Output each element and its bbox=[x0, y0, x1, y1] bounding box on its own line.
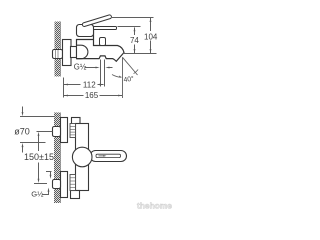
lever slot arrow bbox=[99, 155, 107, 157]
ext line escutcheon bottom bbox=[20, 142, 46, 144]
ext line top bar bbox=[118, 26, 141, 28]
top bar bbox=[94, 27, 117, 30]
bottom union nut bbox=[70, 175, 76, 191]
body (side view) bbox=[77, 29, 125, 62]
wall inlet fitting (side view) bbox=[53, 50, 63, 59]
ext line escutcheon top bbox=[20, 116, 55, 118]
lever (plan view) bbox=[90, 151, 127, 162]
40 deg arc bbox=[112, 75, 121, 78]
svg-text:40°: 40° bbox=[123, 75, 135, 84]
wall hatch (plan view) bbox=[54, 113, 61, 204]
dim 104 bbox=[144, 18, 158, 54]
diverter knob bbox=[100, 38, 106, 46]
lever inner slot bbox=[96, 154, 121, 157]
outlet right arrow bbox=[105, 67, 112, 69]
wall face ext line bbox=[63, 78, 65, 98]
bottom escutcheon top tick bbox=[46, 171, 52, 173]
dim 112 bbox=[64, 80, 104, 89]
svg-text:112: 112 bbox=[83, 80, 96, 89]
top union nut bbox=[70, 124, 76, 138]
cartridge dome (side view) bbox=[77, 25, 94, 37]
top wall fitting bbox=[53, 127, 61, 137]
dia70 bottom arrow bbox=[22, 143, 24, 153]
G 1/2 L-leader bbox=[42, 188, 49, 195]
svg-text:104: 104 bbox=[144, 33, 158, 42]
svg-text:165: 165 bbox=[85, 91, 99, 100]
svg-text:74: 74 bbox=[130, 36, 139, 45]
union step bbox=[71, 47, 77, 58]
40 deg diagonal ray bbox=[123, 57, 138, 75]
ext line lever tip bbox=[112, 17, 154, 19]
top port rect bbox=[72, 118, 81, 125]
svg-text:thehome: thehome bbox=[137, 201, 172, 211]
cartridge circle (plan view) bbox=[72, 147, 92, 167]
G 1/2 leader arrow bbox=[85, 67, 100, 69]
bottom escutcheon bbox=[61, 172, 68, 198]
bottom port rect bbox=[71, 191, 80, 199]
dim 165 bbox=[64, 91, 123, 100]
ext line bottom union center bbox=[34, 183, 47, 185]
spout outlet ext lines bbox=[100, 60, 102, 87]
body column bbox=[76, 124, 89, 191]
union nut dome bbox=[77, 45, 88, 59]
bottom wall fitting bbox=[53, 180, 61, 189]
ext line spout bottom bbox=[124, 53, 157, 55]
leader top union center bbox=[37, 131, 53, 133]
40 deg vertical ray bbox=[122, 57, 124, 98]
escutcheon (side view) bbox=[63, 40, 72, 66]
40 deg arc arrows bbox=[119, 76, 122, 78]
wall hatch (side view) bbox=[55, 22, 61, 77]
top escutcheon bbox=[61, 118, 68, 143]
svg-text:G½: G½ bbox=[74, 62, 87, 71]
dim 74 bbox=[130, 27, 139, 53]
tick down arrow bbox=[50, 172, 52, 179]
svg-text:150±15: 150±15 bbox=[24, 152, 54, 162]
svg-text:ø70: ø70 bbox=[14, 127, 30, 137]
dim 150±15 bbox=[24, 132, 54, 183]
dia70 top arrow bbox=[22, 107, 24, 117]
lever handle (side view) bbox=[82, 14, 112, 26]
